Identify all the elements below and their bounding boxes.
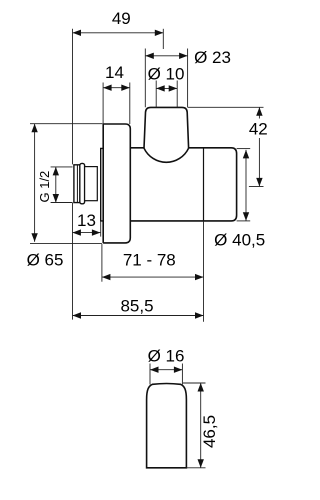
dimension 13 arrows: [72, 229, 81, 235]
dimension O10 arrows: [156, 85, 165, 91]
svg-text:G 1/2: G 1/2: [37, 171, 52, 203]
thread shank section: [85, 167, 98, 201]
dimension 85,5 arrows: [73, 312, 82, 318]
dimension 13 line: [72, 232, 100, 234]
dimension 85,5 line: [73, 315, 204, 317]
svg-text:85,5: 85,5: [120, 297, 153, 316]
dimension 71-78 line: [102, 276, 204, 278]
tick O40,5 top: [237, 148, 251, 150]
extension lines O23: [145, 49, 187, 108]
svg-text:49: 49: [112, 9, 131, 28]
dimension 42 vertical line: [258, 107, 260, 186]
extension line left long (49 / 85,5): [72, 29, 74, 320]
dimension 46,5 vertical line: [200, 383, 202, 468]
extension line 13 right: [100, 221, 102, 237]
svg-text:Ø 40,5: Ø 40,5: [214, 230, 265, 249]
thread collar band: [80, 163, 85, 203]
svg-text:42: 42: [249, 120, 268, 139]
handle dome arc: [144, 148, 189, 162]
label 42: [248, 119, 269, 139]
tick 46,5 bottom: [186, 467, 205, 469]
svg-text:13: 13: [77, 211, 96, 230]
tick 42 bottom: [249, 186, 264, 188]
svg-text:Ø 10: Ø 10: [148, 65, 185, 84]
svg-text:Ø 65: Ø 65: [27, 250, 64, 269]
dimension O65 vertical line: [34, 124, 36, 242]
dimension 49 line: [73, 32, 164, 34]
dimension O40,5 arrows: [243, 150, 249, 159]
thread G 1/2 outer section: [74, 165, 80, 203]
handle cap (top): [144, 107, 189, 148]
dimension 14 line: [103, 87, 130, 89]
dimension G1/2 arrows: [53, 167, 59, 176]
tick O65 top: [30, 123, 102, 125]
wall flange: [103, 124, 130, 243]
extension line 49 right: [162, 29, 164, 49]
dimension 71-78 arrows: [102, 274, 111, 280]
svg-text:Ø 16: Ø 16: [148, 347, 185, 366]
boss behind flange: [101, 148, 104, 221]
dimension O10 line: [156, 87, 177, 89]
dimension 46,5 arrows: [198, 383, 204, 392]
dimension O16 arrows: [150, 367, 159, 373]
extension line right (71-78 / 85,5): [203, 221, 205, 322]
dimension O16 line: [150, 369, 182, 371]
stem extension lines O10: [156, 81, 177, 108]
dimension 42 arrows: [256, 107, 262, 116]
extension line 71-78 left: [101, 244, 103, 282]
dimension 14 arrows: [103, 85, 112, 91]
valve body (main cylinder with chamfered right corners): [130, 148, 236, 221]
extension lines O16: [150, 364, 182, 385]
svg-text:14: 14: [105, 63, 124, 82]
ticks G1/2: [51, 167, 73, 203]
dimension O23 line: [145, 55, 187, 57]
extension lines 14: [103, 83, 130, 125]
thread chamfer line: [76, 165, 78, 203]
svg-text:71 - 78: 71 - 78: [123, 251, 176, 270]
dimension 49 arrows: [73, 30, 82, 36]
tick 46,5 top: [183, 382, 206, 384]
dimension G1/2 vertical line: [55, 167, 57, 203]
dimension O65 arrows: [31, 124, 37, 133]
dimension O23 arrows: [145, 53, 154, 59]
small part outline (bottom view): [147, 384, 187, 468]
body joint line: [203, 148, 205, 221]
tick O40,5 bottom: [237, 220, 251, 222]
svg-text:Ø 23: Ø 23: [194, 48, 231, 67]
dimension O40,5 vertical line: [245, 150, 247, 221]
tick O65 bottom: [30, 243, 102, 245]
tick 42 top: [188, 106, 264, 108]
svg-text:46,5: 46,5: [200, 415, 219, 448]
